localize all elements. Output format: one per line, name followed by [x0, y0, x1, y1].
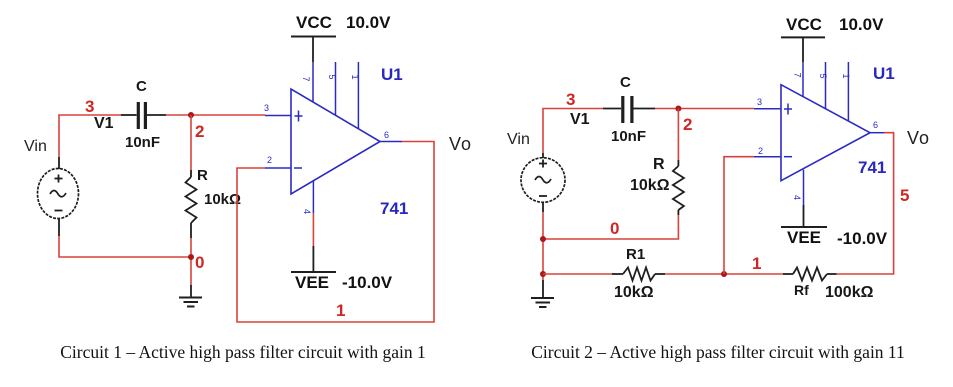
op-amp U1 triangle: [265, 89, 402, 194]
svg-text:3: 3: [566, 90, 575, 109]
node 0 junction: [188, 254, 194, 260]
svg-text:-10.0V: -10.0V: [837, 229, 888, 248]
VCC power rail: [781, 37, 825, 62]
resistor R (vertical zigzag): [186, 170, 197, 238]
svg-text:1: 1: [752, 254, 761, 273]
wire node 0 (source bottom to ground): [59, 236, 191, 285]
svg-text:10nF: 10nF: [125, 134, 160, 151]
op-amp top pin 7: [793, 62, 804, 97]
svg-text:10kΩ: 10kΩ: [204, 191, 241, 208]
svg-text:10kΩ: 10kΩ: [614, 284, 654, 301]
svg-text:3: 3: [264, 103, 269, 113]
svg-text:Vin: Vin: [507, 131, 530, 148]
svg-text:10nF: 10nF: [611, 128, 646, 145]
svg-text:100kΩ: 100kΩ: [825, 284, 874, 301]
node 0 junction: [540, 236, 546, 242]
resistor Rf (horizontal zigzag): [783, 268, 837, 281]
node 2 junction: [188, 112, 194, 118]
svg-text:6: 6: [384, 130, 389, 140]
op-amp top pin 1: [350, 62, 360, 129]
svg-text:2: 2: [195, 122, 204, 141]
svg-text:Vo: Vo: [907, 128, 930, 148]
svg-text:U1: U1: [381, 65, 403, 84]
op-amp U1 triangle: [754, 85, 884, 181]
wire node 1 up to op-amp pin 2: [724, 157, 754, 274]
wire node 3 (Vin to capacitor C): [59, 115, 121, 157]
svg-text:5: 5: [818, 74, 828, 79]
node 1 junction: [721, 271, 727, 277]
svg-text:1: 1: [350, 75, 360, 80]
wire node 2 down to resistor R: [677, 109, 679, 161]
svg-text:Circuit 2 – Active high pass f: Circuit 2 – Active high pass filter circ…: [531, 342, 905, 362]
wire node 1 middle segment: [665, 273, 783, 275]
op-amp top pin 7: [301, 62, 313, 102]
svg-text:R: R: [653, 156, 665, 173]
op-amp top pin 5: [818, 62, 828, 109]
svg-text:Circuit 1 – Active high pass f: Circuit 1 – Active high pass filter circ…: [60, 342, 425, 362]
svg-text:Rf: Rf: [794, 282, 809, 298]
svg-text:5: 5: [327, 75, 337, 80]
svg-text:10.0V: 10.0V: [839, 15, 884, 34]
wire node 5 (Rf to output): [837, 133, 894, 274]
svg-text:741: 741: [380, 199, 408, 218]
resistor R1 (horizontal zigzag): [612, 268, 665, 281]
wire pin4 to VEE: [312, 213, 314, 246]
svg-text:U1: U1: [873, 64, 895, 83]
wire node 2 (capacitor to op-amp pin 3): [655, 108, 754, 110]
ground: [531, 280, 554, 307]
op-amp top pin 5: [327, 62, 337, 116]
svg-text:C: C: [620, 74, 631, 91]
svg-text:7: 7: [793, 73, 803, 78]
wire node 2 down to resistor R: [190, 115, 192, 170]
svg-text:2: 2: [267, 155, 272, 165]
svg-text:R1: R1: [626, 246, 645, 263]
svg-text:2: 2: [758, 146, 763, 156]
svg-text:1: 1: [336, 301, 345, 320]
wire node 3 (Vin to capacitor C): [543, 109, 603, 154]
svg-text:4: 4: [302, 209, 312, 214]
op-amp top pin 1: [841, 62, 851, 121]
wire node 2 (capacitor to op-amp pin 3): [166, 114, 265, 116]
node 1 junction left: [540, 271, 546, 277]
resistor R (vertical zigzag): [673, 160, 684, 215]
voltage source V1 (AC): [38, 157, 79, 236]
svg-text:VEE: VEE: [787, 228, 821, 247]
VEE power rail: [291, 246, 336, 272]
svg-text:5: 5: [900, 186, 909, 205]
wire node 0 (resistor R bottom to source): [543, 215, 678, 239]
svg-text:7: 7: [301, 77, 311, 82]
svg-text:6: 6: [873, 120, 878, 130]
voltage source V1 (AC): [521, 153, 565, 212]
svg-text:R: R: [197, 167, 208, 184]
svg-text:2: 2: [683, 115, 692, 134]
svg-text:741: 741: [858, 158, 886, 177]
wire source bottom to ground (through nodes 0 and 1): [542, 212, 544, 280]
op-amp pin 4: [792, 170, 804, 205]
svg-text:Vin: Vin: [24, 138, 47, 155]
wire node 1 feedback loop: [237, 142, 434, 323]
svg-text:Vo: Vo: [449, 134, 472, 154]
op-amp pin 4: [302, 181, 313, 214]
capacitor C: [121, 102, 166, 129]
svg-text:-10.0V: -10.0V: [342, 273, 393, 292]
svg-text:V1: V1: [94, 115, 114, 132]
svg-text:4: 4: [792, 195, 802, 200]
svg-text:VEE: VEE: [295, 273, 329, 292]
svg-text:10.0V: 10.0V: [346, 13, 391, 32]
VEE power rail: [781, 205, 827, 227]
svg-text:VCC: VCC: [296, 13, 332, 32]
svg-text:C: C: [136, 78, 147, 95]
svg-text:3: 3: [757, 97, 762, 107]
svg-text:0: 0: [195, 253, 204, 272]
svg-text:V1: V1: [570, 111, 590, 128]
node 2 junction: [675, 106, 681, 112]
VCC power rail: [291, 37, 336, 63]
svg-text:10kΩ: 10kΩ: [630, 177, 670, 194]
ground: [179, 285, 202, 307]
svg-text:1: 1: [841, 74, 851, 79]
capacitor C: [603, 96, 655, 123]
svg-text:3: 3: [85, 97, 94, 116]
wire node 1 left segment: [543, 273, 612, 275]
svg-text:VCC: VCC: [786, 15, 822, 34]
svg-text:0: 0: [610, 219, 619, 238]
